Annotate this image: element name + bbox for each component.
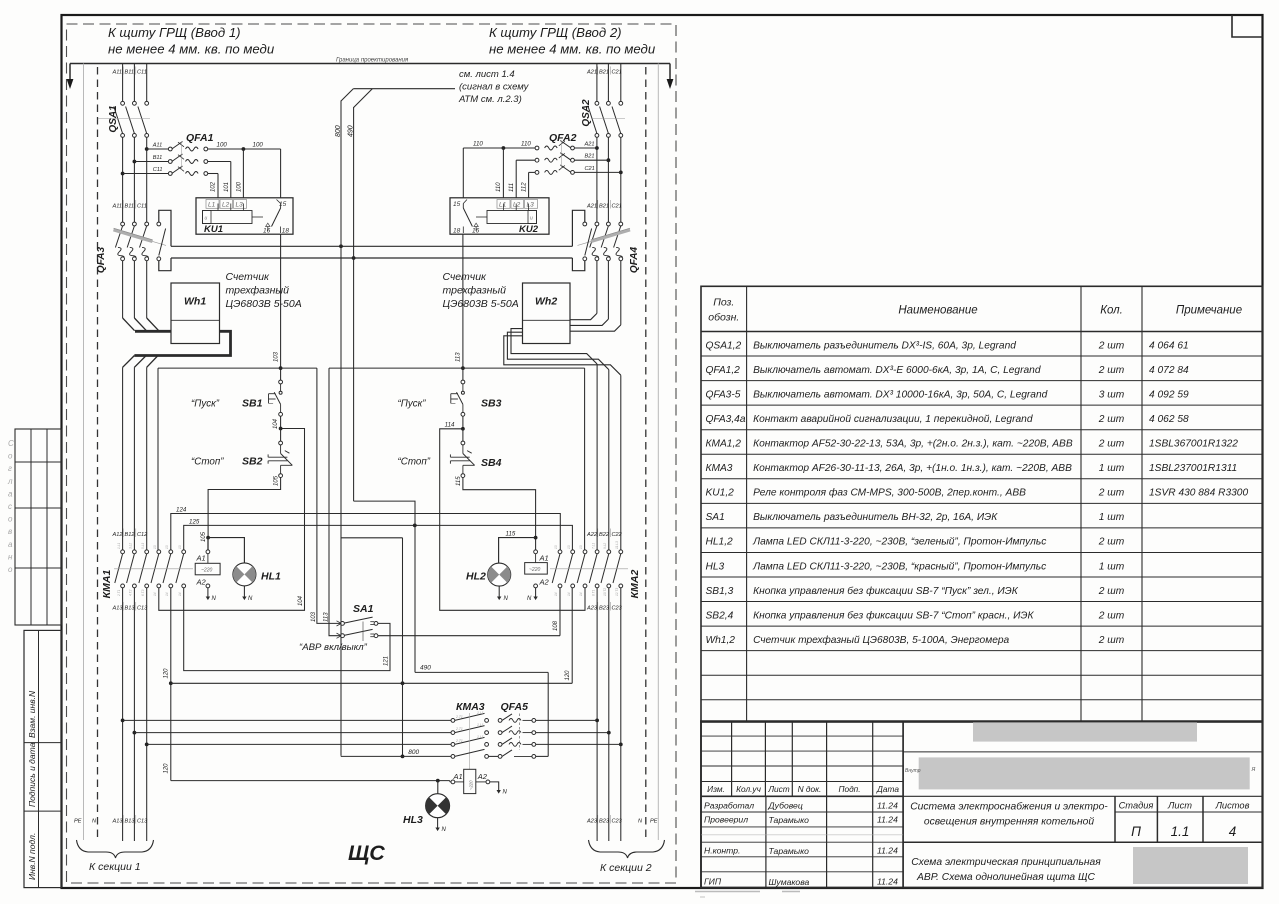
svg-text:С23: С23 — [612, 606, 623, 612]
стадия лист листов boxes — [1114, 796, 1116, 842]
wire 113 to KMA2 aux top — [584, 368, 586, 550]
svg-text:А11: А11 — [152, 143, 163, 149]
svg-text:А11: А11 — [112, 70, 123, 76]
svg-text:Кнопка управления без фиксации: Кнопка управления без фиксации SB-7 “Пус… — [753, 585, 1019, 597]
wire QFA3a top to signal bus 1 — [159, 210, 171, 246]
svg-text:К щиту ГРЩ (Ввод 1): К щиту ГРЩ (Ввод 1) — [108, 25, 241, 40]
svg-text:HL1: HL1 — [261, 571, 281, 583]
KU1 changeover contact — [252, 216, 263, 218]
svg-text:Н.контр.: Н.контр. — [704, 846, 740, 856]
svg-text:14: 14 — [153, 592, 157, 596]
svg-text:N: N — [248, 596, 253, 602]
wire 108 SA1 to KMA2.1bottom — [378, 635, 560, 637]
svg-text:РЕ: РЕ — [74, 819, 82, 825]
svg-text:113: 113 — [456, 352, 462, 362]
svg-text:КМА1,2: КМА1,2 — [706, 439, 742, 450]
svg-text:3.L2: 3.L2 — [129, 543, 133, 549]
junction 105 lamp branch — [206, 536, 210, 540]
svg-text:С13: С13 — [137, 606, 148, 612]
svg-text:QSA1: QSA1 — [108, 105, 119, 133]
wire to lamp HL1 — [208, 538, 244, 563]
wire to lamp HL2 — [499, 538, 536, 563]
wire 114 SB3 to latch — [440, 416, 585, 610]
svg-text:SB3: SB3 — [481, 398, 502, 410]
KMA2 pole 4 — [595, 550, 599, 554]
arrow to ГРЩ ввод 2 — [669, 64, 671, 81]
svg-text:А1: А1 — [453, 772, 463, 781]
KMA3 pole 1 — [451, 719, 455, 723]
svg-text:2.Т1: 2.Т1 — [455, 715, 463, 719]
signal wire bus 1 (QFA3a-QFA4a) — [171, 245, 572, 247]
wire 113 branch horizontal — [329, 367, 585, 369]
svg-text:QFA1: QFA1 — [186, 132, 214, 144]
KMA1 pole 4 — [157, 550, 161, 554]
dashed drawing border — [67, 24, 677, 883]
KU1 terminal L1 — [206, 200, 219, 209]
svg-text:115: 115 — [456, 476, 462, 486]
tap C21 to QFA2 pole3 — [619, 171, 623, 175]
svg-text:А2: А2 — [477, 772, 488, 781]
wire C11 phase C — [146, 64, 148, 102]
wire 490 riser — [353, 107, 355, 501]
svg-text:121: 121 — [383, 656, 389, 666]
KMA2 pole 6 — [619, 550, 623, 554]
svg-text:К секции 1: К секции 1 — [89, 861, 141, 873]
svg-text:4.Т2: 4.Т2 — [129, 589, 133, 596]
brace К секции 1 — [77, 840, 154, 858]
svg-text:Взам. инв.N: Взам. инв.N — [27, 690, 37, 738]
svg-text:А13: А13 — [112, 606, 124, 612]
svg-text:103: 103 — [273, 351, 279, 362]
svg-text:Тарамыко: Тарамыко — [769, 815, 810, 825]
svg-text:Схема электрическая принципиал: Схема электрическая принципиальная — [911, 857, 1101, 868]
svg-text:7.L1: 7.L1 — [591, 543, 595, 549]
redacted org box — [1133, 847, 1248, 884]
svg-text:“Пуск”: “Пуск” — [191, 399, 220, 410]
svg-text:А1: А1 — [539, 554, 549, 563]
phase monitor relay KU1 — [196, 198, 293, 234]
KMA2 pole 1 — [558, 550, 562, 554]
wire A11 phase A — [122, 64, 124, 102]
svg-text:А23: А23 — [586, 606, 598, 612]
svg-text:11.24: 11.24 — [877, 801, 898, 811]
svg-text:2 шт: 2 шт — [1098, 586, 1125, 597]
svg-text:QFA5: QFA5 — [501, 701, 529, 713]
svg-text:2 шт: 2 шт — [1098, 635, 1125, 646]
wire C21 phase C — [620, 64, 622, 102]
wire 113 from KU2 pin18 — [462, 234, 464, 380]
svg-text:К секции 2: К секции 2 — [600, 862, 652, 874]
redacted object box — [919, 757, 1250, 789]
svg-text:1 шт: 1 шт — [1099, 561, 1125, 572]
wire A12 down to KMA1 — [122, 367, 124, 550]
svg-text:С22: С22 — [612, 532, 623, 538]
svg-text:С12: С12 — [137, 532, 148, 538]
svg-text:9.L2: 9.L2 — [603, 543, 607, 549]
svg-text:Поз.: Поз. — [713, 297, 734, 309]
junction 490 on bus2 — [352, 256, 356, 260]
KMA3 coil — [464, 769, 476, 793]
KMA3 linkage — [469, 713, 471, 769]
svg-text:4 064 61: 4 064 61 — [1149, 340, 1189, 351]
QFA5 aux contact — [498, 755, 502, 759]
wire A2 to N — [490, 782, 499, 791]
svg-text:л: л — [7, 477, 13, 486]
svg-text:QFA3-5: QFA3-5 — [706, 389, 741, 400]
svg-text:В23: В23 — [599, 819, 610, 825]
wire PE right — [657, 64, 659, 841]
arrow to ГРЩ ввод 1 — [69, 64, 71, 81]
svg-text:Стадия: Стадия — [1119, 801, 1154, 811]
svg-text:Контактор AF52-30-22-13, 53А,: Контактор AF52-30-22-13, 53А, 3р, +(2н.о… — [753, 439, 1073, 450]
svg-text:N: N — [504, 596, 509, 602]
svg-text:N: N — [442, 827, 447, 833]
svg-text:КМА2: КМА2 — [629, 570, 641, 599]
svg-text:В21: В21 — [585, 154, 595, 160]
svg-text:490: 490 — [420, 665, 431, 672]
QFA2 pole 3 — [571, 171, 575, 175]
svg-text:А23: А23 — [586, 819, 598, 825]
svg-text:QFA3: QFA3 — [96, 247, 107, 274]
svg-text:QSA2: QSA2 — [581, 99, 592, 127]
svg-text:К щиту ГРЩ (Ввод 2): К щиту ГРЩ (Ввод 2) — [489, 25, 622, 40]
wire A21 phase A — [596, 64, 598, 102]
QFA2 pole 1 — [571, 146, 575, 150]
title block frame — [701, 721, 1263, 887]
wires QFA3 to meter bundle — [122, 261, 124, 318]
wire A2 to N right — [535, 588, 537, 597]
wire C12 down to KMA1 — [146, 367, 148, 550]
KMA3 pole 3 — [451, 743, 455, 747]
svg-text:Wh2: Wh2 — [535, 296, 557, 308]
QFA4 pole 1 — [595, 222, 599, 226]
svg-text:Подпись и дата: Подпись и дата — [27, 742, 37, 807]
KMA3 pole 2 — [451, 731, 455, 735]
svg-text:15: 15 — [453, 201, 461, 208]
svg-text:Внутр: Внутр — [905, 768, 921, 774]
svg-text:С11: С11 — [153, 167, 163, 173]
svg-text:QFA1,2: QFA1,2 — [706, 365, 741, 376]
svg-text:Счетчик: Счетчик — [443, 271, 488, 283]
KU2 relay body — [487, 211, 537, 224]
phase bus B23 down — [608, 588, 610, 841]
svg-text:трехфазный: трехфазный — [443, 285, 507, 297]
svg-text:11.24: 11.24 — [877, 846, 898, 856]
svg-text:1.L1: 1.L1 — [477, 723, 484, 727]
wire to HL3 — [437, 781, 439, 794]
tap B21 to QFA2 pole2 — [607, 158, 611, 162]
svg-text:Кол.: Кол. — [1100, 305, 1123, 317]
svg-text:ЦЭ6803В 5-50А: ЦЭ6803В 5-50А — [443, 298, 519, 310]
redacted company box — [973, 722, 1197, 741]
svg-text:105: 105 — [201, 531, 207, 542]
svg-text:Лист: Лист — [1167, 801, 1192, 811]
QFA3 pole 1 — [121, 222, 125, 226]
svg-text:о: о — [8, 565, 13, 574]
wire 103 branch horizontal — [158, 367, 317, 369]
svg-text:2.Т1: 2.Т1 — [455, 739, 463, 743]
svg-text:3 шт: 3 шт — [1099, 389, 1125, 400]
svg-text:Лампа LED СКЛ11-3-220, ~230В,: Лампа LED СКЛ11-3-220, ~230В, “зеленый”,… — [752, 537, 1046, 548]
wire 800 lower horizontal — [340, 755, 342, 758]
svg-text:L2: L2 — [222, 202, 230, 209]
svg-text:N док.: N док. — [798, 784, 822, 794]
svg-text:~220: ~220 — [529, 567, 540, 573]
left attachment grid (Согласовано) — [15, 429, 62, 625]
svg-text:112: 112 — [522, 182, 528, 192]
svg-text:13: 13 — [165, 545, 169, 549]
KMA2 pole 3 — [583, 550, 587, 554]
wire 800 riser — [340, 101, 342, 756]
svg-text:108: 108 — [553, 620, 559, 631]
svg-text:HL3: HL3 — [706, 561, 725, 572]
svg-text:1.1: 1.1 — [1171, 824, 1190, 839]
wire B22 down to KMA2 — [608, 370, 610, 550]
svg-text:АТМ см. л.2.3): АТМ см. л.2.3) — [458, 94, 522, 105]
brace К секции 2 — [589, 840, 665, 858]
svg-text:u: u — [530, 216, 533, 222]
phase bus C13 down — [146, 588, 148, 841]
svg-text:АВР. Схема однолинейная щита Щ: АВР. Схема однолинейная щита ЩС — [916, 872, 1095, 883]
svg-text:1SVR 430 884 R3300: 1SVR 430 884 R3300 — [1149, 488, 1248, 499]
svg-text:Я: Я — [1251, 767, 1256, 773]
svg-text:Лист: Лист — [767, 784, 789, 794]
KMA1 pole 2 — [133, 550, 137, 554]
svg-text:В11: В11 — [153, 155, 163, 161]
phase bus A13 down — [122, 588, 124, 841]
svg-text:Провеерил: Провеерил — [704, 815, 748, 825]
meter Wh2 — [523, 283, 571, 344]
QFA5 linkage — [519, 714, 521, 751]
svg-text:обозн.: обозн. — [708, 312, 739, 324]
svg-text:113: 113 — [323, 612, 329, 622]
svg-text:А1: А1 — [196, 554, 206, 563]
svg-text:С11: С11 — [137, 204, 147, 210]
svg-text:16: 16 — [263, 227, 271, 234]
wire HL3 to N — [437, 818, 439, 828]
KU2 changeover contact — [476, 216, 487, 218]
wire 115 SB4 to KMA2 coil — [463, 478, 536, 551]
tap A21 to QFA2 pole1 — [595, 146, 599, 150]
tap B11 to QFA1 pole2 — [133, 160, 137, 164]
svg-text:11.24: 11.24 — [877, 877, 898, 887]
title signature grid — [765, 796, 767, 887]
svg-text:В12: В12 — [125, 532, 136, 538]
svg-text:2 шт: 2 шт — [1098, 488, 1125, 499]
svg-text:11.24: 11.24 — [877, 815, 898, 825]
svg-text:ЦЭ6803В 5-50А: ЦЭ6803В 5-50А — [226, 298, 302, 310]
wire 101 — [208, 161, 231, 163]
wires QSA1 to QFA3 — [122, 137, 124, 222]
svg-text:Реле контроля фаз СМ-MPS, 300-: Реле контроля фаз СМ-MPS, 300-500В, 2пер… — [753, 487, 1026, 499]
node: граница проектирования line — [70, 63, 670, 65]
QFA3 pole 2 — [133, 222, 137, 226]
svg-text:н: н — [8, 552, 13, 561]
svg-text:А2: А2 — [539, 577, 550, 586]
junction 104 at SB1 — [279, 427, 283, 431]
tie feeder taps left — [121, 719, 125, 723]
junction 113 — [461, 366, 465, 370]
svg-text:HL1,2: HL1,2 — [706, 537, 734, 548]
junction 115 lamp branch — [534, 536, 538, 540]
svg-text:120: 120 — [565, 670, 571, 681]
svg-text:Счетчик: Счетчик — [226, 271, 271, 283]
button SB2 Стоп — [279, 441, 283, 445]
junction riser-800 — [401, 755, 405, 759]
svg-text:Подп.: Подп. — [838, 784, 860, 794]
svg-text:А21: А21 — [584, 142, 595, 148]
KMA1 coil — [195, 563, 220, 575]
svg-text:8.Т1: 8.Т1 — [591, 589, 595, 596]
KMA1 pole 3 — [145, 550, 149, 554]
KU2 terminal L1 — [497, 200, 510, 209]
svg-text:1SBL237001R1311: 1SBL237001R1311 — [1149, 463, 1237, 474]
wire 800 branch horizontal — [341, 537, 403, 539]
svg-text:А22: А22 — [586, 532, 598, 538]
bundle into Wh1 — [135, 330, 171, 333]
wire QFA4a bottom to signal bus 2 — [572, 258, 584, 271]
aux contact QFA3a — [157, 222, 161, 226]
svg-text:В21: В21 — [599, 204, 609, 210]
svg-text:QSA1,2: QSA1,2 — [706, 340, 742, 351]
svg-text:125: 125 — [189, 518, 200, 525]
KMA2 pole 5 — [607, 550, 611, 554]
scan artifacts below frame — [695, 891, 760, 893]
lamp HL2 — [488, 563, 511, 586]
svg-text:800: 800 — [335, 125, 342, 137]
KMA1 pole 6 — [182, 550, 186, 554]
button SB1 Пуск — [279, 380, 283, 384]
left strip Взам. инв.N / Подпись и дата / Инв.N подл. — [24, 630, 62, 887]
wire 490 horizontal — [415, 671, 548, 673]
phase bus A23 down — [596, 588, 598, 841]
svg-text:SB1: SB1 — [242, 398, 263, 410]
QFA1 pole 1 — [168, 147, 172, 151]
svg-text:С11: С11 — [137, 70, 147, 76]
KMA3 aux contact — [451, 755, 455, 759]
wire 120 horizontal — [171, 682, 572, 684]
svg-text:490: 490 — [348, 125, 355, 137]
svg-text:2 шт: 2 шт — [1098, 610, 1125, 621]
wire HL1 to N — [243, 586, 245, 597]
svg-text:КМА1: КМА1 — [101, 570, 113, 599]
svg-text:2 шт: 2 шт — [1098, 537, 1125, 548]
svg-text:100: 100 — [217, 142, 228, 149]
svg-text:13: 13 — [178, 545, 182, 549]
svg-text:QFA3,4а: QFA3,4а — [706, 414, 746, 425]
wire B21 phase B — [607, 64, 609, 102]
svg-text:800: 800 — [408, 749, 419, 756]
bundle out of Wh1 — [134, 331, 230, 355]
svg-text:Выключатель разъединитель DX³-: Выключатель разъединитель DX³-IS, 60А, 3… — [753, 340, 1016, 351]
svg-text:L3: L3 — [527, 202, 535, 209]
wire B12 down to KMA1 — [133, 367, 135, 550]
svg-text:Дубовец: Дубовец — [768, 801, 803, 811]
svg-text:1 шт: 1 шт — [1099, 512, 1125, 523]
svg-text:Контактор AF26-30-11-13, 26А,: Контактор AF26-30-11-13, 26А, 3р, +(1н.о… — [753, 463, 1072, 474]
svg-text:Лампа LED СКЛ11-3-220, ~230В,: Лампа LED СКЛ11-3-220, ~230В, “красный”,… — [752, 561, 1046, 572]
svg-text:В11: В11 — [125, 70, 135, 76]
svg-text:РЕ: РЕ — [650, 819, 658, 825]
spec table frame — [701, 286, 1263, 722]
svg-text:100: 100 — [236, 181, 242, 192]
svg-text:13: 13 — [153, 545, 157, 549]
svg-text:13: 13 — [554, 545, 558, 549]
svg-text:u: u — [205, 216, 208, 222]
svg-text:HL3: HL3 — [403, 814, 423, 826]
junction 114 at SB3 — [461, 427, 465, 431]
wire riser x402 — [402, 538, 404, 757]
svg-text:14: 14 — [567, 592, 571, 596]
svg-text:Наименование: Наименование — [898, 305, 977, 317]
KU1 terminal L2 — [220, 200, 233, 209]
svg-text:Разработал: Разработал — [704, 801, 754, 811]
title block revision grid — [731, 721, 733, 796]
svg-text:10.Т2: 10.Т2 — [603, 588, 607, 596]
svg-text:KU1,2: KU1,2 — [706, 488, 735, 499]
svg-text:102: 102 — [211, 181, 217, 192]
QFA4 pole 2 — [607, 222, 611, 226]
svg-text:Wh1,2: Wh1,2 — [706, 635, 736, 646]
svg-text:SB1,3: SB1,3 — [706, 586, 734, 597]
svg-text:трехфазный: трехфазный — [226, 285, 290, 297]
spec empty rows — [701, 674, 1263, 676]
wire KMA3aux to QFA5aux — [489, 755, 499, 757]
svg-text:14: 14 — [579, 592, 583, 596]
wire 111 — [516, 159, 535, 161]
QFA1 pole 2 — [168, 160, 172, 164]
svg-text:5.L3: 5.L3 — [141, 543, 145, 549]
svg-text:не менее 4 мм. кв. по меди: не менее 4 мм. кв. по меди — [489, 42, 656, 57]
svg-text:2.Т1: 2.Т1 — [455, 727, 463, 731]
svg-text:В13: В13 — [125, 819, 136, 825]
svg-text:в: в — [8, 527, 12, 536]
svg-text:А12: А12 — [112, 532, 124, 538]
phase monitor relay KU2 — [450, 198, 549, 234]
svg-text:Листов: Листов — [1215, 801, 1250, 811]
svg-text:L1: L1 — [208, 202, 216, 209]
svg-text:120: 120 — [164, 668, 170, 679]
svg-text:13: 13 — [567, 545, 571, 549]
tie feeder taps right — [595, 719, 599, 723]
svg-text:L2: L2 — [513, 202, 521, 209]
wire HL2 to N — [498, 586, 500, 596]
wire C22 down to KMA2 — [620, 375, 622, 550]
wire B11 phase B — [133, 64, 135, 102]
svg-text:С21: С21 — [612, 204, 622, 210]
svg-text:Кол.уч: Кол.уч — [736, 784, 761, 794]
svg-text:Дата: Дата — [876, 784, 899, 794]
wires QSA2 to QFA4 — [596, 137, 598, 222]
svg-text:Выключатель разъединитель ВН-3: Выключатель разъединитель ВН-32, 2р, 16А… — [753, 512, 998, 523]
KMA1 pole 5 — [169, 550, 173, 554]
svg-text:о: о — [8, 452, 13, 461]
switch SA1 — [341, 622, 345, 626]
tap A11 to QFA1 pole1 — [145, 147, 149, 151]
KU1 relay body — [203, 211, 253, 224]
svg-text:12.Т3: 12.Т3 — [615, 588, 619, 596]
svg-text:14: 14 — [178, 592, 182, 596]
svg-text:~220: ~220 — [469, 780, 474, 790]
svg-text:L3: L3 — [236, 202, 244, 209]
svg-text:В13: В13 — [125, 606, 136, 612]
top-right stamp box — [1232, 15, 1263, 37]
KU2 terminal L3 — [525, 200, 538, 209]
svg-text:а: а — [8, 489, 13, 498]
svg-text:1.L1: 1.L1 — [117, 543, 121, 549]
wire SB1 to SB2 — [280, 429, 282, 442]
svg-text:110: 110 — [473, 141, 483, 148]
